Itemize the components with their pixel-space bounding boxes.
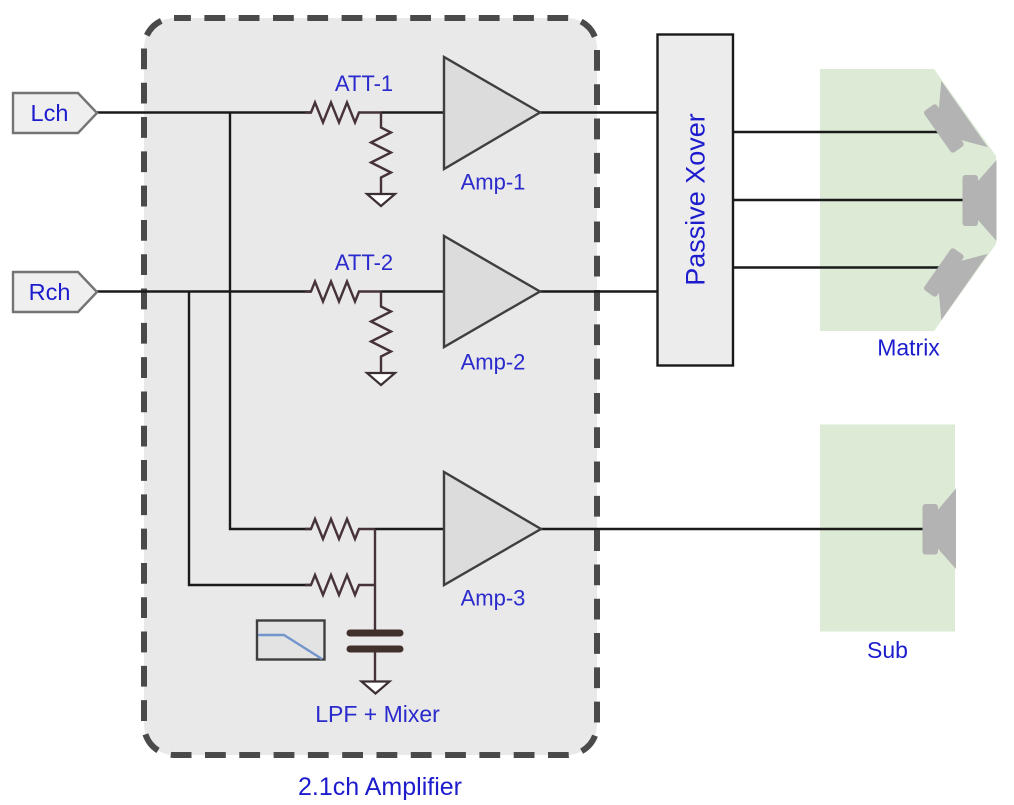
svg-text:ATT-2: ATT-2: [335, 250, 393, 275]
ground GND2: [367, 373, 395, 385]
op-amp Amp-2: [444, 236, 540, 347]
LPF response curve: [258, 635, 322, 659]
resistor ATT-1 shunt: [371, 113, 391, 194]
capacitor C1 plate 2: [350, 646, 400, 653]
svg-text:2.1ch Amplifier: 2.1ch Amplifier: [298, 773, 462, 801]
wire Lch branch to mixer: [230, 113, 311, 530]
resistor mixer L: [305, 519, 375, 539]
speaker top (up-angled): [914, 81, 987, 166]
svg-text:Rch: Rch: [29, 279, 71, 305]
speaker bottom (down-angled): [914, 235, 987, 320]
resistor ATT-1 series: [305, 103, 381, 123]
wire ATT-1 to Amp-1: [381, 111, 445, 113]
speaker sub: [923, 489, 957, 570]
wire Rch branch to mixer: [189, 292, 311, 586]
wire mixer junction vertical: [374, 529, 376, 630]
Sub speaker cabinet: [820, 425, 955, 632]
wire Amp-1 to Passive Xover: [540, 111, 658, 113]
svg-text:Passive Xover: Passive Xover: [681, 113, 711, 286]
Matrix speaker cabinet: [820, 69, 996, 331]
wire Amp-2 to Passive Xover: [540, 290, 658, 292]
Passive Xover box: [658, 35, 734, 366]
svg-text:Amp-3: Amp-3: [461, 586, 526, 611]
resistor ATT-2 shunt: [371, 292, 391, 373]
svg-text:LPF + Mixer: LPF + Mixer: [315, 701, 440, 727]
wire Amp-3 to Sub speaker: [540, 528, 923, 530]
op-amp Amp-1: [444, 57, 540, 169]
resistor mixer R: [305, 575, 375, 595]
input tag Rch: [13, 272, 97, 312]
speaker middle: [963, 160, 997, 241]
resistor ATT-2 series: [305, 282, 381, 302]
wire Lch input to ATT-1: [96, 111, 311, 113]
amplifier enclosure 2.1ch: [144, 18, 597, 755]
wire ATT-2 to Amp-2: [381, 290, 445, 292]
ground GND1: [367, 194, 395, 206]
svg-text:Amp-1: Amp-1: [461, 170, 526, 195]
ground GND3: [362, 682, 390, 694]
wire Xover out mid: [734, 199, 964, 201]
capacitor C1 plate 1: [350, 630, 400, 637]
wire Rch input to ATT-2: [96, 290, 311, 292]
wire Xover out bottom: [734, 266, 940, 268]
svg-text:Sub: Sub: [867, 637, 908, 663]
svg-text:Lch: Lch: [31, 100, 69, 126]
svg-text:Matrix: Matrix: [877, 335, 940, 361]
svg-text:Amp-2: Amp-2: [461, 350, 526, 375]
wire capacitor to ground: [374, 652, 376, 681]
input tag Lch: [13, 93, 97, 133]
LPF response box: [257, 621, 325, 660]
wire Xover out top: [734, 131, 941, 133]
svg-text:ATT-1: ATT-1: [335, 71, 393, 96]
op-amp Amp-3: [444, 472, 541, 585]
wire mixer node to Amp-3: [375, 528, 445, 530]
